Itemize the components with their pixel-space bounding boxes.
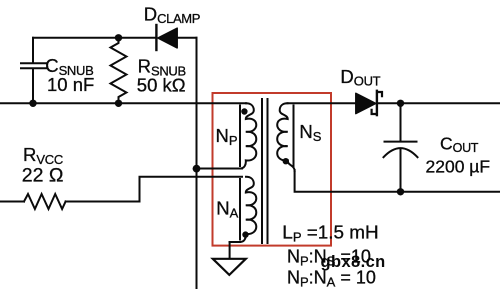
svg-text:gbx8.cn: gbx8.cn xyxy=(321,253,386,271)
svg-text:50 kΩ: 50 kΩ xyxy=(137,75,186,96)
svg-text:22 Ω: 22 Ω xyxy=(22,165,64,187)
svg-text:2200 µF: 2200 µF xyxy=(426,156,491,176)
svg-text:10 nF: 10 nF xyxy=(47,74,94,95)
